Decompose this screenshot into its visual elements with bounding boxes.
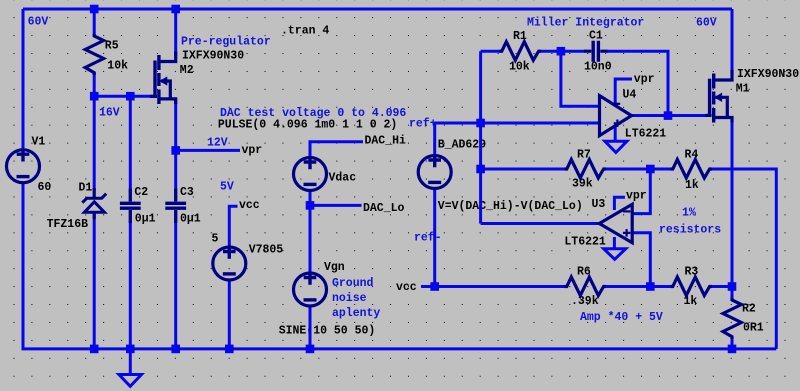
svg-text:0µ1: 0µ1 — [135, 213, 156, 226]
wire M2 drain from rail — [174, 9, 177, 56]
svg-text:R5: R5 — [105, 40, 119, 53]
wire R5 top lead — [93, 9, 96, 37]
wire vcc flag to V7805 — [229, 206, 237, 246]
svg-text:60V: 60V — [28, 15, 49, 28]
svg-text:C2: C2 — [134, 186, 148, 199]
op-amp U4 — [600, 96, 632, 136]
svg-text:SINE(10 50 50): SINE(10 50 50) — [279, 325, 376, 338]
svg-text:V1: V1 — [32, 136, 46, 149]
junction R1 C1 U4 input — [557, 47, 566, 56]
junction bottom rail Vgn — [306, 345, 315, 354]
svg-text:Vgn: Vgn — [324, 261, 345, 274]
junction R7-R4 U3 -input — [646, 165, 655, 174]
voltage source Vdac — [294, 156, 327, 190]
wire B_AD629 bottom ref- — [433, 190, 436, 287]
svg-text:B_AD629: B_AD629 — [438, 139, 486, 152]
svg-text:LT6221: LT6221 — [564, 236, 606, 249]
svg-text:12V: 12V — [207, 137, 228, 150]
svg-text:LT6221: LT6221 — [625, 128, 667, 141]
resistor R1 — [500, 42, 542, 61]
wire integrator input vertical — [479, 51, 482, 223]
svg-text:U3: U3 — [592, 198, 606, 211]
voltage source V1 — [7, 149, 40, 183]
wire 16V node to M2 gate — [94, 95, 153, 98]
svg-text:10n0: 10n0 — [584, 61, 612, 74]
wire top rail 60V — [23, 8, 732, 11]
svg-text:C1: C1 — [589, 30, 603, 43]
wire U3 V+ to vpr flag — [614, 197, 625, 210]
junction top rail M2 drain — [171, 5, 180, 14]
svg-text:0µ1: 0µ1 — [180, 213, 201, 226]
wire D1 to bottom rail — [93, 212, 96, 349]
resistor R6 — [565, 277, 607, 296]
junction 16V at C2 — [126, 92, 135, 101]
nmos transistor M1 — [705, 70, 732, 123]
wire U4 -input branch — [561, 51, 600, 106]
svg-text:10k: 10k — [107, 60, 128, 73]
behavioral source B_AD629 — [418, 154, 451, 188]
resistor R2 — [723, 298, 741, 339]
capacitor C1 — [584, 41, 608, 62]
svg-text:D1: D1 — [79, 182, 93, 195]
svg-text:16V: 16V — [99, 107, 120, 120]
svg-text:vpr: vpr — [626, 190, 647, 203]
wire R2 to bottom rail — [731, 336, 734, 349]
junction bottom rail R2 — [728, 345, 737, 354]
wire R1 left lead — [481, 50, 503, 53]
wire vcc rail left — [421, 285, 568, 288]
wire vcc rail mid R6-R3 — [603, 285, 675, 288]
ground flag bottom rail — [119, 375, 142, 387]
capacitor C2 — [120, 189, 141, 224]
junction bottom rail V7805 — [225, 345, 234, 354]
wire Vgn to bottom rail — [309, 307, 312, 349]
resistor R5 — [85, 34, 103, 75]
wire 12V node to vpr flag — [176, 149, 240, 152]
wire Vdac bottom — [309, 192, 312, 206]
wire M1 drain from rail — [731, 9, 734, 78]
wire left rail to V1 — [22, 9, 25, 148]
svg-text:0R1: 0R1 — [743, 322, 764, 335]
wire ground stub — [129, 349, 132, 375]
svg-text:noise: noise — [332, 292, 367, 305]
wire R1 to C1 node — [538, 50, 585, 53]
svg-text:ref-: ref- — [414, 232, 442, 245]
wire C3 lower to rail — [174, 210, 177, 349]
svg-text:IXFX90N30: IXFX90N30 — [182, 50, 244, 63]
wire DAC_Lo flag — [310, 204, 362, 207]
ground flag U3 — [604, 249, 626, 259]
svg-text:1%: 1% — [682, 207, 696, 220]
resistor R4 — [671, 160, 713, 179]
svg-text:5V: 5V — [220, 181, 234, 194]
wire C2 branch upper — [129, 96, 132, 201]
junction bottom rail C3 — [171, 345, 180, 354]
svg-text:10k: 10k — [509, 61, 530, 74]
resistor R7 — [565, 160, 607, 179]
voltage source Vgn — [294, 272, 327, 306]
svg-text:vcc: vcc — [396, 281, 417, 294]
junction bottom rail C2 gnd — [126, 345, 135, 354]
svg-text:C3: C3 — [180, 186, 194, 199]
svg-text:V7805: V7805 — [249, 244, 284, 257]
capacitor C3 — [165, 189, 186, 224]
op-amp U3 — [599, 204, 632, 242]
svg-text:1k: 1k — [685, 179, 699, 192]
junction R7 line at vertical — [476, 165, 485, 174]
svg-text:5: 5 — [212, 233, 219, 246]
nmos transistor M2 — [150, 52, 176, 105]
svg-text:vpr: vpr — [634, 73, 655, 86]
junction ref+ crossing — [476, 119, 485, 128]
junction DAC_Lo at Vdac — [306, 201, 315, 210]
svg-text:DAC_Hi: DAC_Hi — [365, 135, 407, 148]
wire U3 V- stub — [613, 237, 616, 249]
wire R7 to R4 — [603, 168, 675, 171]
svg-text:resistors: resistors — [659, 224, 721, 237]
svg-text:Pre-regulator: Pre-regulator — [181, 36, 271, 49]
junction U4 output — [664, 111, 673, 120]
svg-text:M2: M2 — [180, 64, 194, 77]
svg-text:vcc: vcc — [239, 199, 260, 212]
wire bottom ground rail — [22, 347, 777, 350]
svg-text:Amp *40 + 5V: Amp *40 + 5V — [580, 311, 663, 324]
wire R3 to M1 source node — [709, 285, 732, 288]
wire R5 bottom to D1 — [93, 73, 96, 191]
junction top rail R5 — [90, 5, 99, 14]
wire C1 right to U4 output — [607, 51, 669, 115]
svg-text:60V: 60V — [696, 17, 717, 30]
svg-text:60: 60 — [38, 181, 52, 194]
svg-text:.39k: .39k — [571, 295, 599, 308]
wire U4 V+ to vpr flag — [615, 79, 632, 107]
wire R7 line left — [481, 168, 568, 171]
wire right edge R4 return — [711, 169, 776, 349]
wire B_AD629 top — [433, 123, 436, 155]
resistor R3 — [671, 277, 713, 296]
junction 16V at R5/D1 — [90, 92, 99, 101]
zener diode D1 — [82, 188, 106, 219]
junction vcc at B_AD629 — [430, 282, 439, 291]
wire DAC_Lo node to Vgn — [309, 205, 312, 272]
svg-text:aplenty: aplenty — [332, 307, 380, 320]
junction R3 M1 source — [728, 282, 737, 291]
voltage source V7805 — [213, 246, 246, 280]
svg-text:PULSE(0 4.096 1m0 1 1 0 2): PULSE(0 4.096 1m0 1 1 0 2) — [218, 119, 397, 132]
svg-text:vpr: vpr — [242, 144, 263, 157]
wire U3 output — [481, 222, 600, 225]
svg-text:TFZ16B: TFZ16B — [47, 218, 89, 231]
ground flag U4 — [605, 141, 627, 152]
wire M2 source / C3 branch — [174, 100, 177, 202]
wire U3 +input branch — [632, 233, 650, 287]
junction vcc U3 +input — [646, 282, 655, 291]
junction bottom rail D1 — [90, 345, 99, 354]
svg-text:Vdac: Vdac — [329, 172, 357, 185]
wire U4 output to M1 gate — [631, 114, 708, 117]
junction 12V at M2 source — [171, 146, 180, 155]
wire Vdac to DAC_Hi flag — [310, 142, 363, 157]
svg-text:Miller Integrator: Miller Integrator — [527, 17, 644, 30]
wire U3 -input branch — [632, 169, 650, 214]
wire V1 to bottom rail — [22, 184, 25, 349]
wire ref+ line to U4 +input — [435, 122, 600, 125]
wire V7805 to bottom rail — [228, 281, 231, 349]
svg-text:.tran 4: .tran 4 — [281, 25, 329, 38]
wire U4 V- stub — [614, 125, 617, 141]
wire M1 source down — [731, 120, 734, 301]
svg-text:Ground: Ground — [332, 277, 374, 290]
svg-text:V=V(DAC_Hi)-V(DAC_Lo): V=V(DAC_Hi)-V(DAC_Lo) — [438, 200, 583, 213]
wire C2 branch lower — [129, 210, 132, 349]
svg-text:IXFX90N30: IXFX90N30 — [737, 68, 799, 81]
svg-text:DAC_Lo: DAC_Lo — [363, 202, 405, 215]
svg-text:39k: 39k — [572, 178, 593, 191]
svg-text:ref+: ref+ — [409, 118, 437, 131]
svg-text:U4: U4 — [623, 89, 637, 102]
svg-text:M1: M1 — [736, 83, 750, 96]
